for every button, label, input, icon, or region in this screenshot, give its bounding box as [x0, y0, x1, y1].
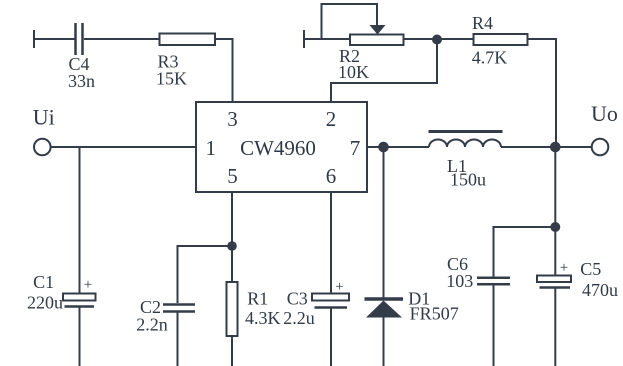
- wire: IC pin 7 to inductor: [367, 146, 429, 148]
- resistor R1: [227, 282, 238, 366]
- svg-text:150u: 150u: [450, 170, 486, 190]
- wire: R4 to output node: [528, 39, 557, 147]
- wire: terminal to R2: [304, 38, 350, 40]
- svg-text:C1: C1: [33, 272, 54, 292]
- svg-text:+: +: [560, 260, 568, 276]
- svg-text:4.3K: 4.3K: [245, 308, 281, 328]
- wire: R3 to IC pin 3: [215, 39, 233, 102]
- svg-text:3: 3: [227, 107, 238, 131]
- node: pin 5 junction: [227, 241, 237, 251]
- svg-text:1: 1: [205, 136, 216, 160]
- svg-text:2.2n: 2.2n: [136, 315, 168, 335]
- svg-text:15K: 15K: [156, 69, 187, 89]
- svg-text:10K: 10K: [338, 62, 369, 82]
- wire: Ui to IC pin 1: [51, 146, 196, 148]
- svg-text:R4: R4: [472, 13, 493, 33]
- wire: R2 wiper feedback loop: [322, 4, 378, 39]
- svg-text:2.2u: 2.2u: [283, 308, 315, 328]
- svg-text:FR507: FR507: [410, 304, 459, 324]
- wire: IC pin 5 down: [231, 192, 233, 282]
- wire: R2 to R4: [404, 38, 474, 40]
- capacitor C4: [76, 23, 83, 55]
- svg-text:7: 7: [350, 136, 361, 160]
- wire: L1 to Uo: [501, 146, 592, 148]
- svg-text:4.7K: 4.7K: [472, 48, 508, 68]
- capacitor C5: [537, 276, 571, 366]
- inductor L1 core bar: [429, 130, 503, 133]
- wire: input rail down to C1: [79, 147, 81, 294]
- svg-text:470u: 470u: [582, 280, 618, 300]
- diode D1: [365, 299, 404, 366]
- wire: junction down to IC pin 2: [331, 40, 437, 103]
- svg-text:Ui: Ui: [33, 105, 55, 130]
- svg-text:C3: C3: [287, 289, 308, 309]
- node: pin 7 junction: [378, 142, 389, 153]
- capacitor C1: [63, 294, 96, 366]
- node Uo: output terminal circle: [592, 139, 609, 156]
- potentiometer R2 body: [350, 35, 404, 46]
- svg-text:6: 6: [326, 164, 337, 188]
- svg-text:2: 2: [326, 107, 337, 131]
- capacitor C6: [477, 278, 510, 366]
- wire: R2 input terminal tick: [303, 30, 305, 48]
- node: C6 branch junction: [550, 222, 560, 232]
- svg-text:+: +: [335, 279, 343, 295]
- wire: input to C4: [34, 38, 75, 40]
- wire: junction to C6: [494, 227, 556, 277]
- svg-text:C5: C5: [580, 259, 601, 279]
- inductor L1 winding: [429, 140, 501, 148]
- svg-text:5: 5: [227, 164, 238, 188]
- wire: junction to C2: [178, 246, 233, 303]
- svg-text:103: 103: [446, 271, 473, 291]
- wire: C4 to R3: [84, 38, 160, 40]
- node: R2/R4 junction: [432, 35, 442, 45]
- wire: C4 input terminal tick: [33, 30, 35, 48]
- resistor R4: [474, 34, 528, 45]
- node Ui: input terminal circle: [34, 139, 51, 156]
- svg-text:CW4960: CW4960: [240, 136, 316, 160]
- resistor R3: [160, 34, 216, 46]
- svg-text:Uo: Uo: [591, 101, 618, 126]
- capacitor C3: [312, 294, 349, 366]
- svg-text:+: +: [84, 277, 92, 293]
- svg-text:220u: 220u: [27, 293, 63, 313]
- op-amp U1: CW4960 IC body: [196, 102, 367, 192]
- wire: IC pin 6 down to C3: [330, 192, 332, 294]
- svg-text:R1: R1: [247, 289, 268, 309]
- wire: output rail down to C5: [554, 147, 556, 276]
- potentiometer R2 wiper arrow: [370, 25, 386, 35]
- node: output junction: [550, 142, 561, 153]
- capacitor C2: [163, 305, 195, 366]
- wire: pin7 node down to D1: [383, 147, 385, 298]
- svg-text:33n: 33n: [68, 71, 95, 91]
